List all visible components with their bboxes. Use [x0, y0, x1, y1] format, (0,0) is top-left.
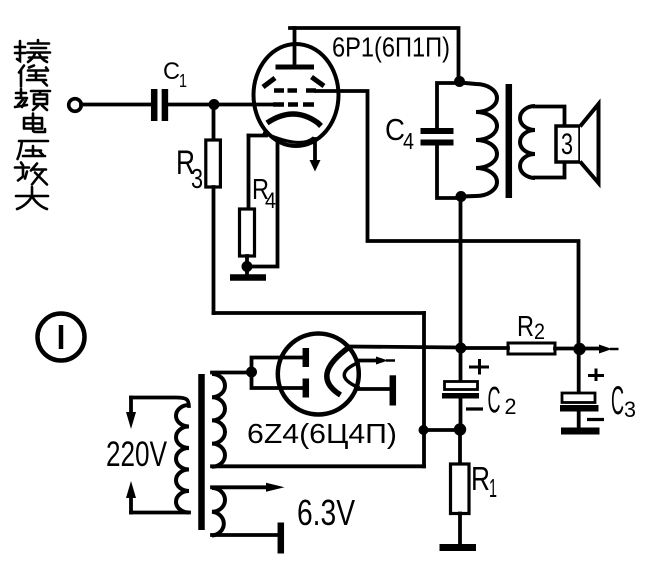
svg-text:1: 1 [489, 473, 497, 503]
svg-text:C: C [385, 112, 405, 147]
wire B+ rail (OT bottom to B+ node) [459, 197, 463, 348]
低 [19, 66, 48, 87]
wire B+ node to R2 [461, 346, 509, 350]
node rectifier anode junction [246, 367, 257, 378]
频 [15, 89, 50, 110]
resistor R3 [206, 140, 221, 187]
接 [15, 40, 50, 62]
U2 cathode output wire [349, 347, 461, 348]
wire R3 down [212, 187, 216, 313]
capacitor C4 [421, 131, 454, 143]
figure number 1 (circled) [38, 314, 85, 361]
wire C3 to ground [577, 412, 581, 428]
大 [16, 187, 48, 209]
resistor R4 [240, 209, 255, 256]
wire R2 to screen node [555, 347, 579, 351]
U1 plate lead [293, 28, 297, 65]
tube U1 6P1 envelope [254, 44, 339, 146]
mains arrow bottom [126, 481, 136, 513]
node R3-return junction [419, 425, 429, 435]
wire anode branches [252, 358, 303, 389]
node A (grid junction dot) [209, 99, 220, 110]
U2 output arrow [359, 357, 395, 365]
U1 beam plate left [263, 78, 275, 87]
resistor R2 [508, 343, 555, 354]
U2 heater lead [356, 387, 389, 391]
svg-text:4: 4 [265, 188, 276, 213]
U2 anode 2 [303, 379, 310, 398]
node C2- junction [454, 423, 466, 435]
C3 minus sign [587, 418, 604, 421]
svg-text:R: R [517, 311, 534, 343]
svg-text:R: R [471, 460, 490, 497]
svg-text:4: 4 [403, 128, 414, 154]
svg-text:C: C [611, 379, 624, 423]
svg-text:3: 3 [191, 163, 203, 194]
U1 plate (anode) [276, 65, 315, 70]
wire HV bottom return [212, 464, 424, 468]
ground (below C3) [561, 428, 600, 435]
U1 cathode stub [249, 134, 267, 138]
wire node to R1 [458, 430, 462, 464]
svg-text:2: 2 [505, 394, 517, 419]
ground (below R1) [440, 544, 477, 551]
svg-text:3: 3 [561, 128, 573, 161]
T1 primary bottom lead [131, 511, 189, 515]
node screen B+ junction [573, 343, 585, 355]
mains arrow top [126, 398, 136, 430]
wire plate top (B+ top rail) [290, 28, 459, 82]
T1 primary winding (220V) [176, 405, 189, 513]
node R4 ground junction [242, 261, 253, 272]
svg-text:6P1(6П1П): 6P1(6П1П) [332, 32, 450, 63]
input terminal [69, 99, 82, 112]
resistor R1 [451, 464, 470, 514]
wire secondary to speaker bottom [535, 162, 565, 178]
caption 接低频电压放大 (vertical Chinese text, drawn as strokes) [15, 40, 50, 209]
wire between lower nodes [424, 428, 461, 432]
wire tube bottom to ground node [247, 141, 278, 267]
wire C4 bottom branch [437, 146, 460, 198]
wire C2 to lower node [459, 399, 463, 431]
wire C3 top lead [577, 349, 581, 394]
wire junction to R3 [212, 105, 216, 141]
wire R3 return vertical [422, 313, 426, 466]
U1 beam plate right [312, 77, 325, 86]
wire screen grid run [316, 91, 579, 349]
电 [24, 114, 45, 133]
capacitor C2 (electrolytic) [442, 382, 479, 399]
U1 control grid (dashed) [273, 102, 314, 107]
wire C4 top branch [437, 83, 460, 128]
T1 6.3V winding [212, 488, 225, 536]
压 [18, 141, 49, 159]
ground (below R4) [230, 274, 266, 281]
svg-text:1: 1 [179, 71, 187, 91]
6.3V bottom lead [212, 533, 278, 537]
speaker horn [580, 104, 599, 183]
output arrow [579, 345, 619, 354]
放 [15, 163, 47, 185]
U1 cathode (dome arc) [267, 114, 321, 126]
C3 plus sign [588, 369, 604, 382]
wire input to C1 [81, 103, 151, 107]
T1 primary top lead [131, 398, 189, 407]
capacitor C3 (electrolytic) [560, 393, 599, 412]
wire R1 to ground [458, 514, 462, 545]
capacitor C1 [154, 89, 165, 121]
U1 heater (dish arc) [263, 133, 314, 143]
transformer T2 secondary winding [520, 106, 535, 178]
C2 minus sign [466, 407, 483, 410]
C2 plus sign [469, 359, 489, 375]
svg-text:3: 3 [624, 397, 636, 422]
svg-text:6.3V: 6.3V [297, 492, 355, 533]
svg-text:C: C [488, 380, 501, 421]
T1 HV secondary winding [212, 374, 225, 467]
svg-text:C: C [163, 58, 180, 85]
wire cathode to R4 [247, 136, 251, 210]
U2 cathode arc [327, 347, 350, 396]
tube U2 6Z4 envelope [278, 334, 359, 415]
speaker voice-coil box [556, 126, 580, 162]
wire C1 to grid [168, 103, 273, 107]
6.3V terminal bar [278, 523, 285, 554]
svg-text:2: 2 [534, 319, 545, 344]
U1 screen grid (dashed) [274, 88, 316, 93]
6.3V arrow lead [212, 483, 285, 492]
U2 anode 1 [303, 348, 310, 367]
U1 cathode down-arrow [310, 139, 321, 172]
wire secondary to speaker top [535, 107, 565, 127]
transformer T1 core [198, 374, 205, 530]
wire node to ground [245, 267, 249, 275]
transformer T2 core [506, 84, 513, 198]
U2 heater terminal bar [390, 375, 397, 405]
wire R4 to ground node [245, 256, 249, 267]
node OT bottom junction [456, 191, 467, 202]
svg-text:220V: 220V [106, 435, 167, 474]
node top B+ junction [454, 76, 465, 87]
U2 heater arc [344, 362, 359, 388]
node B+ main junction [455, 343, 466, 354]
wire HV top to rectifier [212, 371, 252, 375]
wire R3 return horizontal [214, 311, 425, 315]
transformer T2 primary winding [460, 83, 498, 197]
svg-text:6Z4(6Ц4П): 6Z4(6Ц4П) [247, 418, 397, 449]
wire B+ node down to C2 [459, 348, 463, 381]
